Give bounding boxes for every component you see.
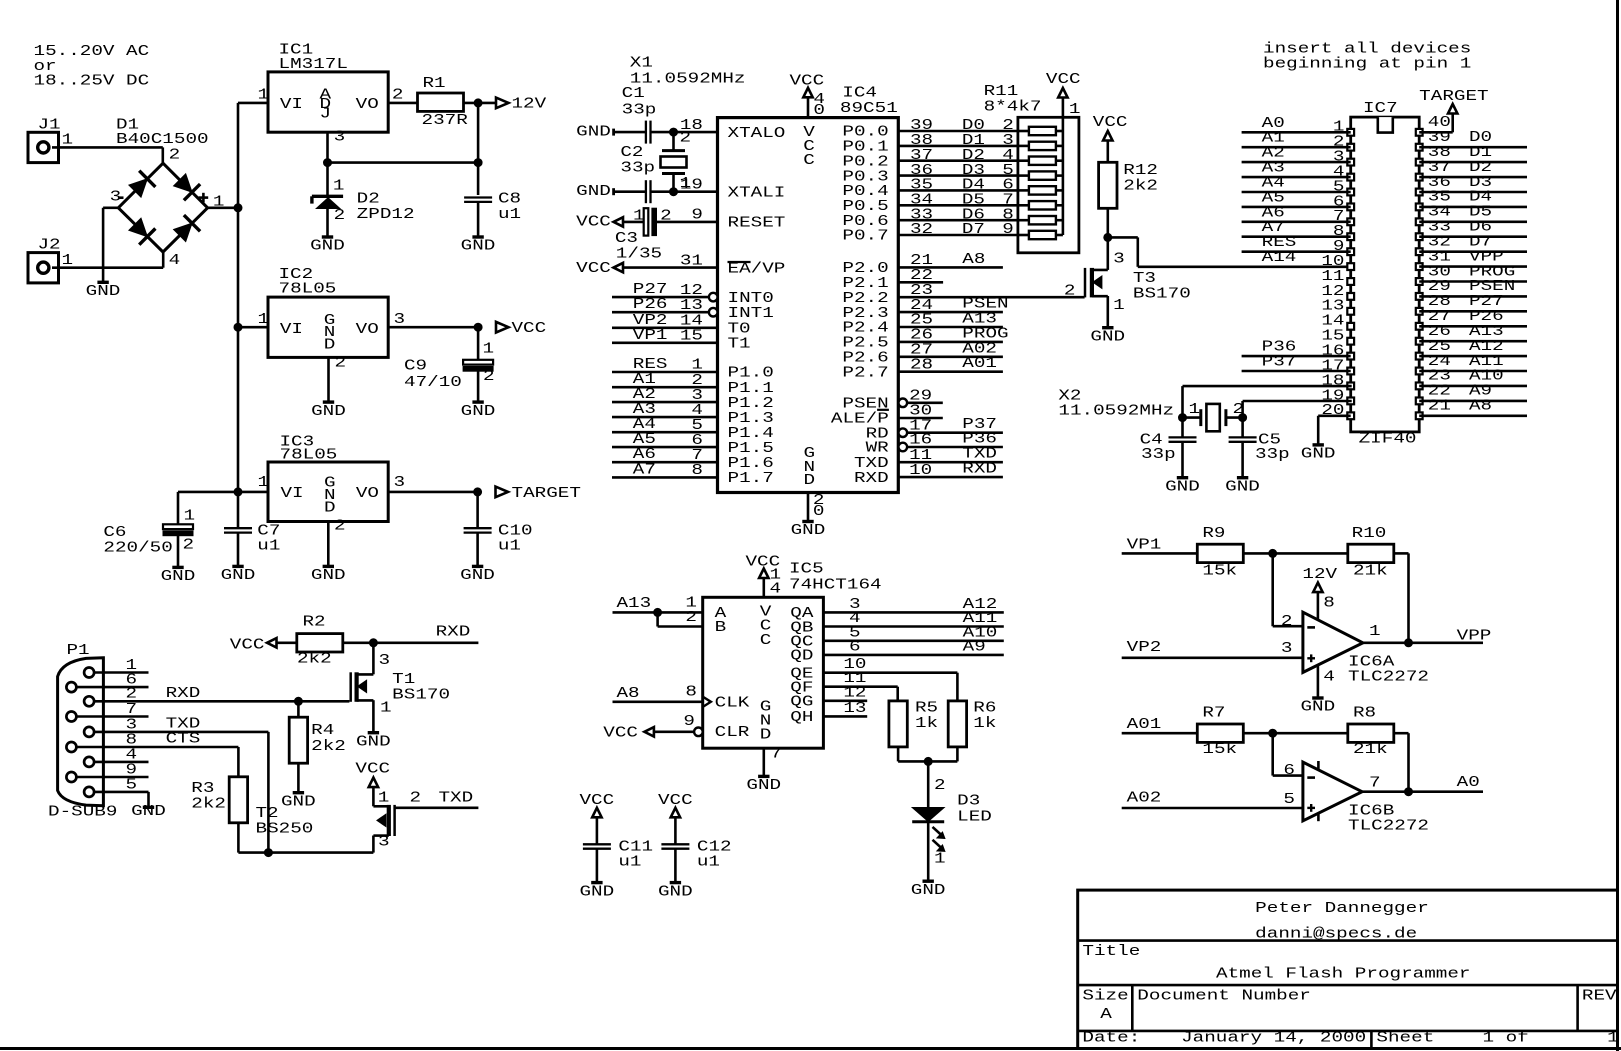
ZIF pin 20 [1347, 412, 1354, 419]
svg-text:GND: GND [311, 568, 346, 584]
svg-text:P0.0: P0.0 [842, 125, 888, 141]
svg-text:IC6A: IC6A [1348, 655, 1395, 671]
svg-text:12V: 12V [1302, 567, 1337, 583]
ZIF pin 27 [1416, 323, 1423, 330]
IC4 pin20 ground [807, 493, 810, 522]
wire QF to R5 [896, 687, 899, 702]
ZIF pin 14 [1347, 323, 1354, 330]
junction X2 pin1 [1179, 414, 1187, 422]
ground [232, 565, 243, 568]
svg-text:1: 1 [1069, 102, 1081, 118]
svg-text:2: 2 [335, 356, 347, 372]
svg-text:12: 12 [1321, 284, 1344, 300]
ZIF pin 38 [1416, 159, 1423, 166]
junction RXD node [369, 639, 377, 647]
svg-text:D: D [760, 728, 772, 744]
svg-text:QH: QH [790, 710, 813, 726]
wire J2 to bridge pin4 [52, 266, 163, 269]
svg-text:ZPD12: ZPD12 [357, 207, 415, 223]
svg-text:D1: D1 [962, 133, 985, 149]
svg-text:January 14, 2000: January 14, 2000 [1181, 1031, 1366, 1047]
svg-text:GND: GND [911, 883, 946, 899]
svg-text:C7: C7 [257, 524, 280, 540]
svg-text:47/10: 47/10 [404, 375, 462, 391]
svg-text:39: 39 [1428, 130, 1451, 146]
svg-text:A6: A6 [1262, 205, 1285, 221]
svg-text:1: 1 [378, 790, 390, 806]
svg-text:3: 3 [1281, 641, 1293, 657]
svg-text:1: 1 [380, 700, 392, 716]
svg-text:T0: T0 [728, 322, 751, 338]
svg-text:IC4: IC4 [842, 86, 877, 102]
junction adj node [324, 159, 332, 167]
svg-text:P1: P1 [67, 643, 90, 659]
ground [172, 566, 183, 569]
resistor R6 1k [948, 701, 966, 747]
svg-text:D4: D4 [962, 178, 985, 194]
svg-text:A12: A12 [1469, 339, 1504, 355]
svg-text:A5: A5 [1262, 190, 1285, 206]
svg-text:D5: D5 [1469, 205, 1492, 221]
svg-text:VCC: VCC [1046, 72, 1081, 88]
svg-text:2: 2 [392, 88, 404, 104]
svg-text:A3: A3 [1262, 161, 1285, 177]
svg-text:ALE/P: ALE/P [831, 412, 889, 428]
svg-text:C1: C1 [622, 86, 645, 102]
IC4 pin13 inversion circle [709, 308, 718, 317]
svg-text:34: 34 [1428, 205, 1451, 221]
svg-text:15: 15 [1321, 329, 1344, 345]
svg-text:P0.1: P0.1 [842, 140, 889, 156]
svg-text:IC5: IC5 [789, 562, 824, 578]
svg-text:P27: P27 [1469, 294, 1504, 310]
supply arrow TARGET at ZIF [1448, 104, 1457, 114]
svg-text:2: 2 [169, 147, 181, 163]
svg-text:VP2: VP2 [1127, 640, 1162, 656]
svg-text:TXD: TXD [439, 790, 474, 806]
wire IC3 pin1 to C6 [178, 491, 238, 494]
svg-text:R11: R11 [984, 84, 1019, 100]
svg-text:GND: GND [461, 239, 496, 255]
ZIF pin 25 [1416, 353, 1423, 360]
svg-text:Atmel Flash Programmer: Atmel Flash Programmer [1216, 967, 1471, 983]
svg-text:37: 37 [1428, 160, 1451, 176]
svg-text:15k: 15k [1202, 563, 1237, 579]
svg-text:QD: QD [790, 649, 813, 665]
ground [591, 881, 602, 884]
ground [472, 565, 483, 568]
svg-text:1k: 1k [915, 716, 938, 732]
svg-text:P0.4: P0.4 [842, 184, 889, 200]
svg-text:D: D [804, 473, 816, 489]
svg-text:P36: P36 [962, 432, 997, 448]
svg-text:A7: A7 [633, 462, 656, 478]
ground [1237, 476, 1248, 479]
R11 element 5 [1029, 171, 1056, 179]
svg-text:P0.2: P0.2 [842, 154, 888, 170]
svg-text:VO: VO [356, 486, 379, 502]
svg-text:u1: u1 [697, 855, 720, 871]
svg-text:9: 9 [1002, 222, 1014, 238]
svg-text:R6: R6 [973, 700, 996, 716]
wire bus to IC3 pin1 [238, 491, 268, 494]
svg-text:BS170: BS170 [1133, 287, 1191, 303]
ZIF pin 28 [1416, 308, 1423, 315]
svg-text:21k: 21k [1353, 563, 1388, 579]
ground [472, 235, 483, 238]
svg-text:9: 9 [683, 714, 695, 730]
svg-text:R8: R8 [1353, 706, 1376, 722]
svg-text:A8: A8 [617, 686, 640, 702]
svg-text:P1.7: P1.7 [728, 471, 774, 487]
diode D1 bottom-right [174, 223, 192, 241]
wire P1 pin5 to GND [94, 791, 149, 794]
svg-text:4: 4 [169, 253, 181, 269]
svg-text:1: 1 [1607, 1031, 1619, 1047]
wire supply bus [237, 103, 240, 528]
svg-text:A14: A14 [1262, 250, 1297, 266]
wire R1 to 12V node [464, 102, 497, 105]
svg-text:TXD: TXD [962, 447, 997, 463]
junction XTALO [670, 128, 678, 136]
junction bus IC2 [234, 323, 242, 331]
ground [1102, 326, 1113, 329]
ZIF pin 11 [1347, 278, 1354, 285]
IC4 pin12 inversion circle [709, 293, 718, 302]
svg-text:GND: GND [281, 794, 316, 810]
svg-text:D1: D1 [116, 117, 139, 133]
svg-text:A1: A1 [633, 372, 656, 388]
svg-text:A1: A1 [1262, 131, 1285, 147]
svg-text:A3: A3 [633, 402, 656, 418]
ZIF pin 3 [1347, 159, 1354, 166]
svg-text:J: J [320, 107, 332, 123]
svg-text:7: 7 [1369, 775, 1381, 791]
ground [322, 235, 333, 238]
svg-text:RES: RES [1262, 235, 1297, 251]
svg-text:4: 4 [770, 582, 782, 598]
svg-text:8: 8 [1002, 207, 1014, 223]
svg-text:GND: GND [461, 404, 496, 420]
ZIF pin 10 [1347, 263, 1354, 270]
IC5 pin7 ground [762, 748, 765, 776]
svg-text:2: 2 [334, 519, 346, 535]
svg-text:2: 2 [1281, 614, 1293, 630]
capacitor C10 u1 [476, 492, 479, 528]
svg-text:D1: D1 [1469, 145, 1492, 161]
svg-text:R9: R9 [1202, 526, 1225, 542]
op-amp IC6B TLC2272 [1303, 762, 1362, 821]
svg-text:6: 6 [849, 639, 861, 655]
svg-text:31: 31 [1428, 249, 1451, 265]
svg-text:XTALI: XTALI [728, 185, 786, 201]
svg-text:A6: A6 [633, 447, 656, 463]
R11 element 9 [1029, 231, 1056, 239]
svg-text:38: 38 [1428, 145, 1451, 161]
R11 element 6 [1029, 186, 1056, 194]
svg-text:220/50: 220/50 [103, 540, 172, 556]
svg-text:XTALO: XTALO [728, 126, 786, 142]
svg-text:2: 2 [685, 610, 697, 626]
svg-text:A5: A5 [633, 432, 656, 448]
svg-text:A4: A4 [633, 417, 656, 433]
ZIF pin 29 [1416, 293, 1423, 300]
svg-text:D3: D3 [962, 163, 985, 179]
svg-text:0: 0 [813, 103, 825, 119]
svg-text:D2: D2 [357, 191, 380, 207]
svg-text:REV: REV [1582, 989, 1617, 1005]
svg-text:A02: A02 [962, 341, 997, 357]
ZIF pin 5 [1347, 189, 1354, 196]
svg-text:EA/VP: EA/VP [728, 261, 786, 277]
svg-text:PSEN: PSEN [1469, 279, 1515, 295]
op-amp IC6A TLC2272 [1303, 612, 1363, 672]
wire IC2 pin2 gnd [327, 357, 330, 402]
svg-text:A8: A8 [1469, 399, 1492, 415]
svg-text:C: C [803, 153, 815, 169]
svg-text:IC1: IC1 [279, 42, 314, 58]
svg-text:1: 1 [1369, 624, 1381, 640]
svg-text:VP1: VP1 [1127, 538, 1162, 554]
svg-text:A13: A13 [1469, 324, 1504, 340]
svg-text:T2: T2 [256, 806, 279, 822]
ZIF pin 37 [1416, 174, 1423, 181]
IC4 EA overbar [728, 261, 751, 263]
svg-text:32: 32 [1428, 235, 1451, 251]
svg-text:P1.4: P1.4 [728, 426, 775, 442]
svg-text:P36: P36 [1262, 340, 1297, 356]
ZIF pin 33 [1416, 233, 1423, 240]
wire IC1 pin3 adj [326, 132, 329, 162]
ZIF pin 35 [1416, 204, 1423, 211]
svg-text:RXD: RXD [854, 471, 889, 487]
svg-text:TXD: TXD [166, 717, 201, 733]
wire bus to IC2 pin1 [238, 326, 268, 329]
svg-text:P0.6: P0.6 [842, 214, 888, 230]
svg-text:P1.0: P1.0 [728, 366, 774, 382]
wire adj node down to D2 [326, 163, 329, 196]
svg-text:Date:: Date: [1082, 1031, 1140, 1047]
pin P1-1 [84, 668, 94, 678]
svg-text:P37: P37 [1262, 355, 1297, 371]
svg-text:5: 5 [1283, 792, 1295, 808]
wire bottom TXD rail [238, 851, 373, 854]
svg-text:2: 2 [334, 208, 346, 224]
svg-text:11: 11 [1321, 269, 1344, 285]
svg-text:R3: R3 [191, 781, 214, 797]
svg-text:CLK: CLK [715, 696, 750, 712]
svg-text:B: B [715, 620, 727, 636]
svg-text:P2.5: P2.5 [842, 336, 888, 352]
svg-text:R10: R10 [1352, 526, 1387, 542]
supply arrow 12V [496, 98, 509, 109]
LED D3 [927, 761, 930, 807]
svg-text:1: 1 [333, 179, 345, 195]
svg-text:3: 3 [334, 130, 346, 146]
svg-text:4: 4 [1002, 148, 1014, 164]
capacitor C7 u1 [224, 527, 252, 529]
svg-text:40: 40 [1428, 115, 1451, 131]
wire R9 to junction [1243, 552, 1348, 555]
svg-text:2: 2 [1064, 283, 1076, 299]
wire bus to IC1 pin1 [238, 102, 268, 105]
ZIF pin 21 [1416, 412, 1423, 419]
ground [472, 400, 483, 403]
svg-text:2k2: 2k2 [297, 652, 332, 668]
svg-text:8: 8 [685, 685, 697, 701]
svg-text:12V: 12V [512, 96, 547, 112]
svg-text:8*4k7: 8*4k7 [984, 100, 1042, 116]
svg-text:C3: C3 [615, 231, 638, 247]
IC4 pin 17 inversion circle [899, 428, 908, 437]
svg-text:A2: A2 [1262, 146, 1285, 162]
capacitor C5 33p [1241, 418, 1244, 438]
wire inverting input IC6B [1271, 733, 1274, 775]
svg-text:VPP: VPP [1469, 249, 1504, 265]
junction A13 [654, 608, 662, 616]
svg-text:A7: A7 [1262, 220, 1285, 236]
pin P1-9 [66, 772, 76, 782]
svg-text:VCC: VCC [355, 761, 390, 777]
svg-text:29: 29 [1428, 279, 1451, 295]
svg-text:GND: GND [746, 778, 781, 794]
svg-text:21k: 21k [1353, 742, 1388, 758]
svg-text:P2.4: P2.4 [842, 321, 889, 337]
svg-text:237R: 237R [422, 113, 469, 129]
junction TXD rail [264, 849, 272, 857]
svg-text:C11: C11 [618, 840, 653, 856]
IC6A pin4 GND [1317, 665, 1320, 698]
junction T3 drain node [1104, 233, 1112, 241]
svg-text:GND: GND [131, 804, 166, 820]
net VP2 [1122, 656, 1303, 659]
svg-text:89C51: 89C51 [840, 101, 898, 117]
svg-text:C2: C2 [620, 145, 643, 161]
wire inverting input IC6A [1271, 553, 1274, 626]
wire J1 to bridge pin2 [52, 146, 163, 149]
net A01 [1122, 732, 1198, 735]
svg-text:A10: A10 [1469, 369, 1504, 385]
svg-text:1: 1 [934, 852, 946, 868]
wire ZIF pin20 to GND [1318, 414, 1351, 417]
svg-text:P2.2: P2.2 [842, 291, 888, 307]
ZIF pin 36 [1416, 189, 1423, 196]
svg-text:VI: VI [280, 97, 303, 113]
svg-text:GND: GND [1225, 479, 1260, 495]
ZIF pin 32 [1416, 248, 1423, 255]
svg-text:33p: 33p [1255, 447, 1290, 463]
svg-text:GND: GND [161, 569, 196, 585]
svg-text:P2.0: P2.0 [842, 261, 888, 277]
svg-text:D5: D5 [962, 193, 985, 209]
svg-text:RXD: RXD [166, 686, 201, 702]
ZIF pin 4 [1347, 174, 1354, 181]
svg-text:WR: WR [866, 441, 889, 457]
svg-text:TLC2272: TLC2272 [1348, 818, 1429, 834]
svg-text:23: 23 [1428, 369, 1451, 385]
ZIF pin 26 [1416, 338, 1423, 345]
svg-text:D2: D2 [1469, 160, 1492, 176]
svg-text:A0: A0 [1262, 116, 1285, 132]
wire T3 node to ZIF A14 row [1108, 236, 1138, 239]
supply arrow VCC [496, 322, 509, 333]
svg-text:X2: X2 [1058, 389, 1081, 405]
svg-text:A9: A9 [963, 639, 986, 655]
resistor R4 2k2 [297, 701, 300, 717]
supply arrow TARGET [496, 487, 509, 498]
ZIF pin 23 [1416, 383, 1423, 390]
svg-text:33p: 33p [622, 102, 657, 118]
svg-text:1/35: 1/35 [616, 246, 662, 262]
svg-text:CLR: CLR [715, 725, 750, 741]
svg-text:u1: u1 [498, 207, 521, 223]
svg-text:RXD: RXD [962, 462, 997, 478]
svg-text:R5: R5 [915, 700, 938, 716]
svg-text:A9: A9 [1469, 384, 1492, 400]
svg-text:13: 13 [1321, 299, 1344, 315]
wire IC3 pin2 gnd [327, 522, 330, 567]
svg-text:IC7: IC7 [1363, 101, 1398, 117]
svg-text:GND: GND [460, 568, 495, 584]
svg-text:A01: A01 [1127, 717, 1162, 733]
svg-text:P27: P27 [633, 282, 668, 298]
svg-text:BS250: BS250 [256, 822, 314, 838]
svg-text:3: 3 [1002, 133, 1014, 149]
svg-text:24: 24 [1428, 354, 1451, 370]
wire R7 to junction [1243, 732, 1348, 735]
resistor R3 2k2 [229, 777, 247, 823]
svg-text:1: 1 [1113, 298, 1125, 314]
svg-text:2: 2 [483, 369, 495, 385]
svg-text:QG: QG [790, 695, 813, 711]
pin P1-6 [66, 682, 76, 692]
svg-text:1: 1 [62, 253, 74, 269]
svg-text:15k: 15k [1202, 742, 1237, 758]
ZIF pin 12 [1347, 293, 1354, 300]
svg-text:7: 7 [770, 747, 782, 763]
svg-text:1: 1 [633, 208, 645, 224]
svg-text:D6: D6 [962, 207, 985, 223]
svg-text:R4: R4 [311, 723, 334, 739]
pin P1-3 [84, 727, 94, 737]
supply arrow VCC for R12 [1103, 131, 1112, 141]
svg-text:1 of: 1 of [1483, 1031, 1529, 1047]
svg-text:P1.6: P1.6 [728, 456, 774, 472]
svg-text:3: 3 [379, 653, 391, 669]
svg-text:A: A [1100, 1007, 1112, 1023]
wire X2 pin2 to ZIF pin19 [1241, 401, 1244, 418]
svg-text:D2: D2 [962, 148, 985, 164]
svg-text:2: 2 [183, 538, 195, 554]
svg-text:VCC: VCC [230, 638, 265, 654]
capacitor C9 47/10 [477, 327, 480, 360]
wire adj node to C8 node [328, 161, 479, 164]
svg-text:B40C1500: B40C1500 [116, 132, 209, 148]
svg-text:VCC: VCC [576, 214, 611, 230]
ground [802, 520, 813, 523]
svg-text:PROG: PROG [962, 326, 1008, 342]
svg-text:GND: GND [310, 239, 345, 255]
svg-text:A01: A01 [962, 356, 997, 372]
IC4 pin 29 inversion circle [899, 399, 908, 408]
svg-text:6: 6 [1002, 178, 1014, 194]
svg-text:GND: GND [1165, 479, 1200, 495]
svg-text:P1.2: P1.2 [728, 396, 774, 412]
svg-text:3: 3 [394, 312, 406, 328]
net TXD from P1 pin3 [94, 731, 268, 734]
wire R8 to A0 node [1394, 732, 1409, 735]
svg-text:22: 22 [1428, 384, 1451, 400]
